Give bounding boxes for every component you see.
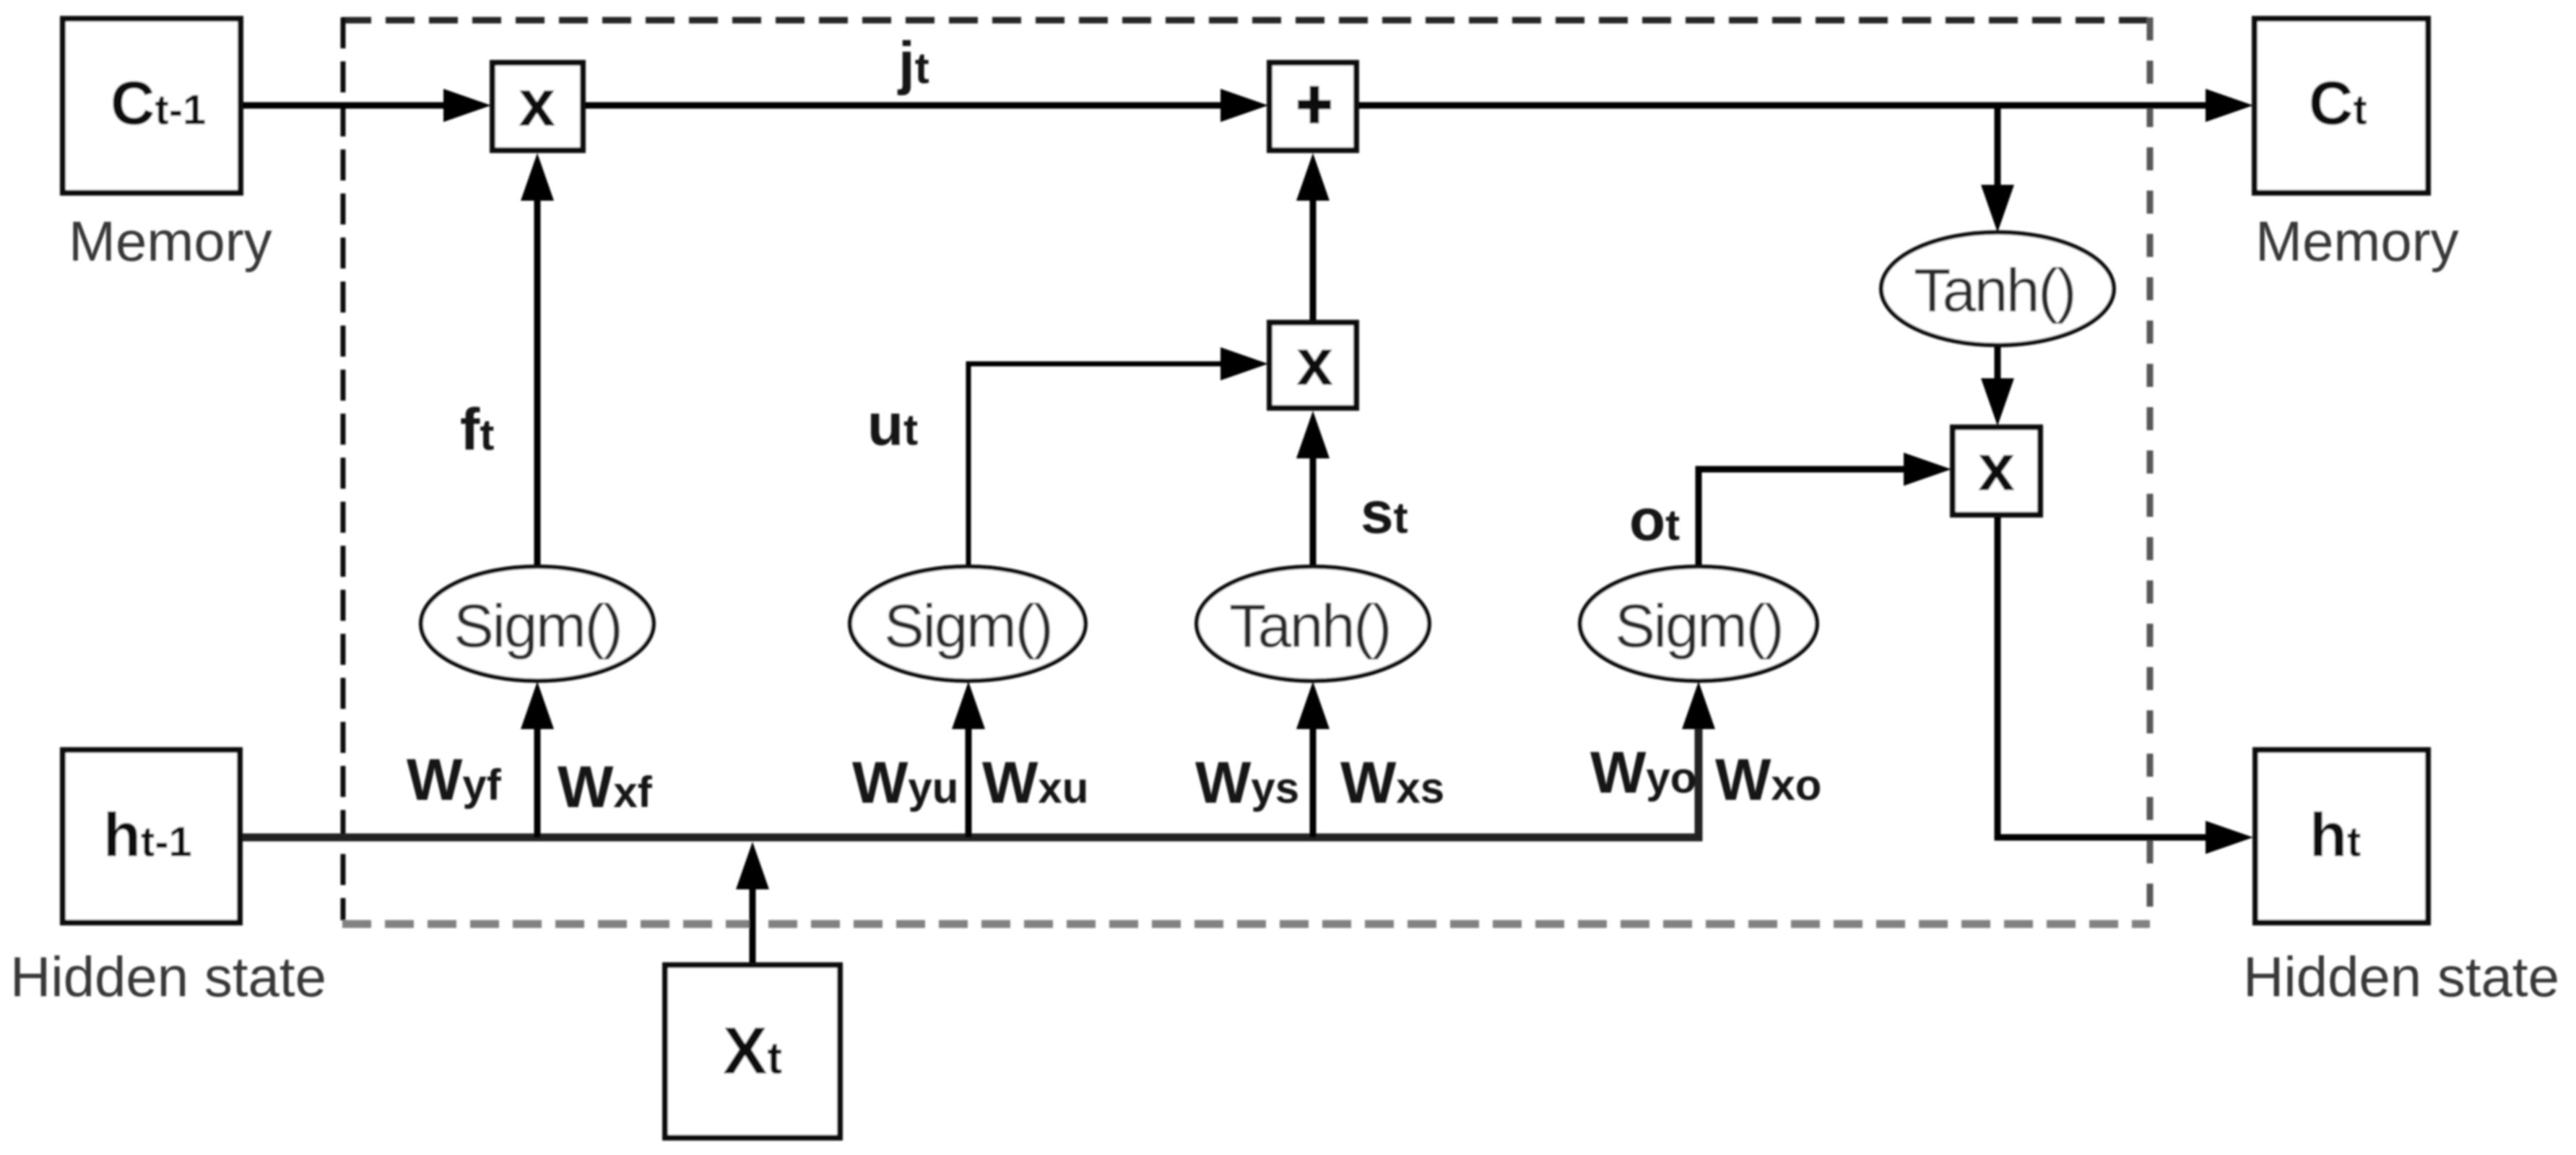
ellipse Sigm f (421, 567, 654, 681)
box Ct (2255, 19, 2428, 193)
svg-text:Sigm(): Sigm() (454, 592, 621, 660)
arrow into Sigm o (1682, 681, 1715, 729)
op box mult2 (1270, 323, 1356, 408)
wire junction drop to Tanh (1995, 105, 2001, 192)
arrow f gate from h line (534, 728, 541, 837)
wire mult3 down right to ht (1998, 515, 2210, 837)
wire mult2 up to add (1310, 199, 1317, 323)
svg-text:Sigm(): Sigm() (884, 592, 1051, 660)
wire ot: Sigm o up and right to mult3 (1699, 469, 1911, 567)
svg-text:x: x (1296, 326, 1333, 399)
dashed cell boundary top (342, 17, 2150, 24)
arrow s gate from h line (1310, 728, 1317, 837)
dashed cell boundary left (341, 17, 346, 920)
ellipse Sigm o (1580, 567, 1817, 681)
dashed cell boundary right (2147, 17, 2154, 920)
arrow u gate from h line (966, 728, 972, 837)
box Ct-1 (63, 19, 240, 193)
wire Tanh to mult3 (1995, 345, 2001, 385)
op box mult1 (493, 63, 583, 150)
ellipse Tanh c (1881, 232, 2114, 345)
svg-text:Memory: Memory (69, 209, 272, 273)
box ht-1 (63, 750, 240, 923)
box Xt (665, 965, 840, 1138)
svg-text:Hidden state: Hidden state (2243, 945, 2559, 1008)
svg-text:Hidden state: Hidden state (10, 945, 326, 1008)
wire Ct-1 to mult1 (240, 103, 449, 109)
op box add (1270, 63, 1356, 150)
svg-text:x: x (519, 66, 555, 140)
wire ft: Sigm f up to mult1 (534, 199, 541, 567)
svg-text:Sigm(): Sigm() (1615, 592, 1782, 660)
op box mult3 (1953, 427, 2040, 515)
svg-text:x: x (1978, 431, 2015, 505)
wire add to Ct (1356, 103, 2210, 109)
svg-text:Tanh(): Tanh() (1914, 256, 2075, 324)
wire ut: Sigm u up and right to mult2 (968, 364, 1228, 567)
ellipse Sigm u (850, 567, 1085, 681)
wire Xt up to h line (750, 888, 756, 965)
svg-text:Memory: Memory (2255, 209, 2459, 273)
dashed cell boundary bottom (342, 920, 2150, 928)
box ht (2255, 750, 2428, 923)
wire jt: mult1 to add (583, 103, 1228, 109)
svg-text:Tanh(): Tanh() (1229, 592, 1390, 660)
wire st: Tanh s up to mult2 (1310, 457, 1317, 567)
wire hidden state main line (240, 728, 1699, 837)
ellipse Tanh s (1197, 567, 1429, 681)
